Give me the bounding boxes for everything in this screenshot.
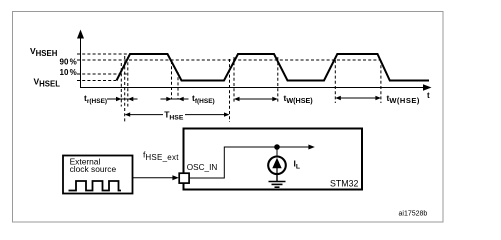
wire arrow (internal) <box>308 145 314 150</box>
STM32 block <box>184 129 363 190</box>
svg-text:clock source: clock source <box>70 164 117 174</box>
wire OSC_IN pin to internal node <box>190 147 313 178</box>
dashed level line VHSEL <box>77 80 116 82</box>
svg-text:OSC_IN: OSC_IN <box>187 163 218 172</box>
square wave symbol <box>69 181 122 191</box>
pin OSC_IN <box>179 173 189 183</box>
dashed marker fall2 90% crossing <box>277 57 279 103</box>
wire fHSE_ext (external box to OSC_IN pin) <box>133 175 179 180</box>
dashed level line 90% <box>77 59 381 61</box>
dashed marker rise2 50% crossing (THSE end) <box>229 59 231 122</box>
svg-text:t: t <box>427 91 430 100</box>
dashed marker rise1 50% crossing (THSE start) <box>124 56 126 122</box>
dimension tr(HSE) arrows <box>107 97 138 101</box>
dashed marker fall3 90% crossing <box>380 60 382 103</box>
dashed marker rise3 90% crossing <box>334 60 336 103</box>
dashed marker fall1 90% crossing <box>171 61 173 100</box>
HSE clock waveform <box>117 54 430 81</box>
dashed marker rise1 90% crossing <box>127 57 129 107</box>
svg-text:STM32: STM32 <box>330 179 358 189</box>
dashed level line VHSEH <box>77 53 130 55</box>
dashed marker fall1 10% crossing <box>177 72 179 100</box>
dimension tW(HSE) first arrow <box>234 97 278 101</box>
external clock source block <box>63 156 133 194</box>
dashed level line 10% <box>77 73 129 75</box>
dimension tf(HSE) arrows <box>161 97 189 101</box>
voltage axis <box>77 30 84 88</box>
dashed marker rise1 10% crossing <box>120 63 122 107</box>
current source IL <box>268 147 286 174</box>
time axis <box>80 84 432 91</box>
svg-text:10%: 10% <box>60 68 77 77</box>
dimension THSE arrow <box>125 112 230 116</box>
dimension tW(HSE) second arrow <box>335 96 381 100</box>
ground <box>269 174 286 187</box>
svg-text:90%: 90% <box>60 57 77 66</box>
svg-text:ai17528b: ai17528b <box>399 211 428 218</box>
junction node <box>274 144 280 150</box>
dashed marker rise2 90% crossing <box>233 57 235 103</box>
